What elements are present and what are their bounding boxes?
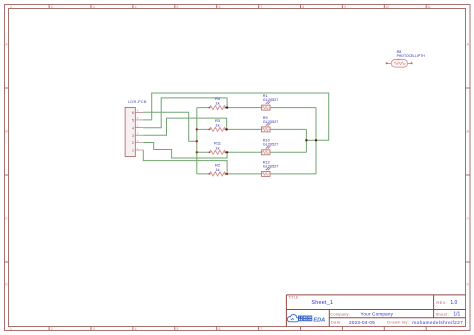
photoresistor R1 [262, 94, 279, 110]
svg-text:LDR-PCB: LDR-PCB [128, 100, 147, 104]
svg-text:Your Company: Your Company [361, 312, 394, 317]
svg-text:1: 1 [10, 327, 12, 331]
svg-text:1: 1 [132, 149, 134, 153]
svg-text:Sheet_1: Sheet_1 [311, 300, 333, 306]
resistor R4 [209, 96, 227, 110]
svg-text:Date:: Date: [331, 320, 342, 325]
title block [286, 295, 465, 327]
svg-text:9: 9 [344, 5, 346, 9]
svg-text:4: 4 [135, 5, 137, 9]
svg-text:4: 4 [135, 327, 137, 331]
svg-text:EDA: EDA [313, 317, 325, 323]
svg-text:GL20527: GL20527 [263, 98, 279, 102]
wire pin2 to R11/R10 midpoint [143, 143, 227, 159]
junction left rail at R11 [196, 151, 198, 153]
junction R4/R1 midpoint [226, 106, 228, 108]
svg-text:GL20527: GL20527 [263, 143, 279, 147]
junction left rail pin6 tap [196, 140, 198, 142]
svg-text:PHOTOCELL/PTH: PHOTOCELL/PTH [397, 54, 426, 58]
connector J1 pad numbers 6..1 [132, 111, 134, 153]
svg-text:6: 6 [218, 5, 220, 9]
svg-text:6: 6 [218, 327, 220, 331]
svg-text:mohamedelshreif227: mohamedelshreif227 [412, 320, 463, 325]
svg-text:3: 3 [93, 327, 95, 331]
svg-text:2: 2 [51, 327, 53, 331]
junction R11/R10 midpoint [226, 151, 228, 153]
svg-text:5: 5 [177, 5, 179, 9]
svg-text:Sheet:: Sheet: [436, 311, 449, 316]
wire pin6 to left rail [143, 112, 197, 141]
resistor R2 [209, 162, 227, 176]
junction common node A [305, 139, 307, 141]
svg-text:3: 3 [93, 5, 95, 9]
svg-text:8: 8 [302, 5, 304, 9]
photocell R8 [386, 50, 425, 67]
svg-text:7: 7 [260, 5, 262, 9]
svg-text:1/1: 1/1 [453, 312, 460, 318]
wire row4 mid and right [226, 140, 317, 174]
connector J1 pin stubs 6..1 [135, 112, 143, 150]
svg-text:GL20527: GL20527 [263, 120, 279, 124]
junction R3/R9 midpoint [226, 128, 228, 130]
connector J1 LDR-PCB body [125, 107, 135, 156]
svg-text:TITLE:: TITLE: [288, 296, 299, 300]
svg-text:1: 1 [10, 5, 12, 9]
svg-text:2: 2 [51, 5, 53, 9]
wire left rail [197, 108, 210, 174]
svg-text:7: 7 [260, 327, 262, 331]
svg-text:4: 4 [132, 126, 134, 130]
junction common node B [315, 139, 317, 141]
svg-text:Company:: Company: [330, 311, 349, 316]
frame row letters [5, 43, 469, 287]
svg-text:5: 5 [132, 119, 134, 123]
resistor R11 [209, 141, 227, 155]
svg-text:11: 11 [427, 5, 431, 9]
wire row1 mid and right [226, 108, 317, 141]
photoresistor R10 [262, 139, 279, 155]
svg-text:1k: 1k [215, 101, 219, 106]
resistor R3 [209, 118, 227, 132]
svg-text:GL20527: GL20527 [263, 164, 279, 168]
svg-text:REV:: REV: [436, 300, 447, 305]
svg-text:Drawn By:: Drawn By: [387, 320, 409, 325]
junction R2/R12 midpoint [226, 173, 228, 175]
connector J1 pin numbers 6..1 [137, 110, 139, 151]
photoresistor R9 [262, 116, 279, 132]
wire row3 mid and right [226, 140, 307, 152]
svg-text:1k: 1k [215, 122, 219, 127]
svg-text:5: 5 [177, 327, 179, 331]
wire row2 mid and right [226, 129, 307, 140]
svg-text:6: 6 [132, 111, 134, 115]
wire pin1 to R2/R12 midpoint [143, 150, 227, 174]
junction left rail at R3 [196, 128, 198, 130]
wire pin3 to R3/R9 midpoint [143, 118, 226, 135]
photoresistor R12 [262, 160, 279, 176]
EasyEDA logo [287, 315, 325, 324]
svg-text:10: 10 [385, 5, 389, 9]
wire pin5 to common junction top rail [143, 93, 328, 140]
wire pin4 to R4/R1 midpoint [143, 98, 227, 128]
svg-text:2023-04-05: 2023-04-05 [349, 320, 375, 325]
svg-text:1.0: 1.0 [450, 300, 457, 306]
svg-text:1k: 1k [215, 167, 219, 172]
svg-text:3: 3 [132, 134, 134, 138]
svg-text:1k: 1k [215, 145, 219, 150]
svg-text:2: 2 [132, 141, 134, 145]
